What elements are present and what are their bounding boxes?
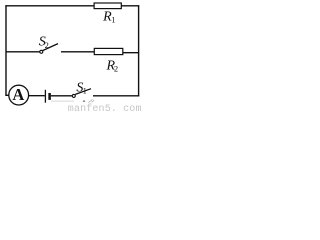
svg-text:2: 2 <box>45 40 49 50</box>
resistor R1 <box>94 3 121 9</box>
wire middle rail mid segment <box>61 51 95 53</box>
wire from ammeter to battery <box>28 95 44 97</box>
switch S1 lever <box>75 89 91 95</box>
wire top rail left segment <box>5 5 94 7</box>
wire right vertical <box>138 5 140 96</box>
wire top rail right segment <box>121 5 139 7</box>
wire bottom rail stub left of ammeter <box>5 94 9 96</box>
wire from battery to switch S1 <box>51 95 72 97</box>
switch S1 pivot <box>72 94 75 97</box>
label R1 <box>102 10 115 25</box>
wire bottom rail right segment <box>93 95 139 97</box>
wire middle rail left segment <box>6 51 40 53</box>
svg-text:1: 1 <box>111 15 115 25</box>
resistor R2 <box>94 48 123 54</box>
label S2 <box>39 34 49 50</box>
watermark faint line <box>51 100 74 102</box>
label S1 <box>76 80 86 95</box>
battery negative plate (short thick) <box>48 93 51 100</box>
ammeter A <box>9 85 29 105</box>
switch S2 lever <box>43 44 58 51</box>
svg-text:A: A <box>12 85 24 104</box>
svg-text:manfen5. com: manfen5. com <box>68 103 142 111</box>
wire left vertical <box>5 5 7 96</box>
svg-text:1: 1 <box>83 85 87 95</box>
watermark marks <box>83 100 86 102</box>
switch S2 pivot <box>40 50 43 53</box>
wire middle rail right segment <box>123 52 139 54</box>
battery positive plate (long) <box>44 90 46 103</box>
svg-text:2: 2 <box>114 64 118 74</box>
label R2 <box>106 58 119 73</box>
